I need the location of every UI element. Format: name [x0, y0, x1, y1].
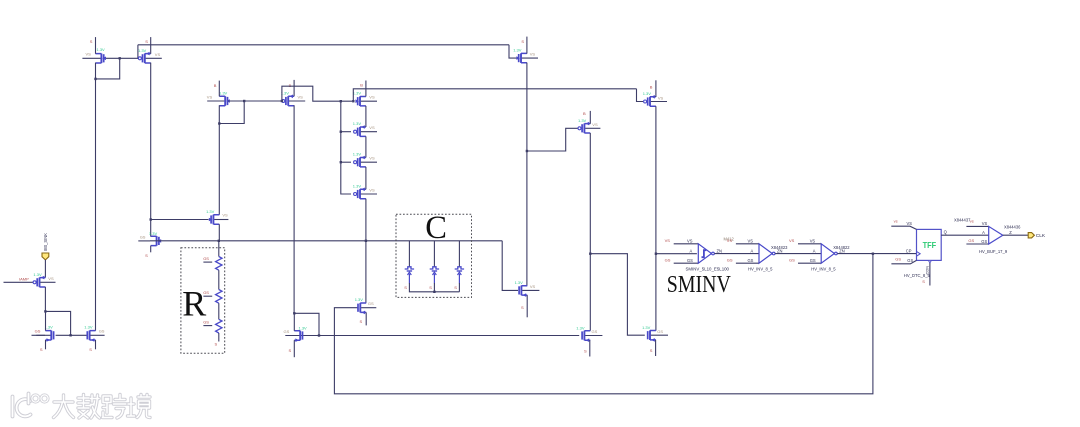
wire cap C2 bottom: [433, 283, 435, 292]
svg-text:GS: GS: [727, 258, 733, 263]
svg-text:S: S: [90, 39, 93, 44]
svg-text:S: S: [360, 319, 363, 324]
feedback wire: [334, 254, 873, 394]
wire INV3 GS stub: [798, 262, 821, 264]
svg-text:VS: VS: [530, 52, 536, 57]
wire S1 drain to S2 source: [365, 136, 367, 157]
svg-text:VS: VS: [298, 95, 304, 100]
transistor M9: [513, 48, 538, 63]
wire INV2 out: [775, 253, 821, 255]
capacitor C3: [455, 267, 464, 284]
pin IB0_SINK: [42, 253, 49, 260]
wire cap C2 top: [433, 241, 435, 267]
svg-text:S: S: [145, 39, 148, 44]
wire BUF out to CLK: [1003, 234, 1028, 236]
svg-text:GS: GS: [907, 258, 913, 263]
wire M9 drain long down to M11: [526, 63, 528, 286]
wire M13 bottom stub: [589, 340, 591, 356]
svg-text:HV_DTC_8_5: HV_DTC_8_5: [904, 273, 931, 278]
junction stack gate S1: [340, 131, 342, 133]
junction cap bus: [433, 291, 435, 293]
wire M_r source leg down from junction: [150, 220, 152, 237]
box R dashed: [181, 248, 225, 353]
wire M4 gate hop to M5 gate: [282, 86, 352, 101]
svg-text:VS: VS: [665, 238, 671, 243]
wire M_c diode loop: [294, 313, 319, 335]
svg-text:S: S: [145, 253, 148, 258]
junction node R top: [218, 240, 220, 242]
wire INV2 GS stub: [736, 262, 759, 264]
svg-text:ZN: ZN: [717, 249, 723, 254]
svg-text:A: A: [690, 248, 693, 253]
wire TFF Q to buffer: [941, 234, 989, 236]
svg-text:X844437: X844437: [954, 218, 971, 223]
wire osc node to INV1 input: [656, 253, 697, 255]
svg-text:GS: GS: [687, 258, 693, 263]
junction stack gate S2: [340, 161, 342, 163]
junction M8 drain: [44, 310, 46, 312]
svg-text:1.3V: 1.3V: [219, 90, 228, 95]
svg-text:TFF: TFF: [923, 240, 937, 250]
svg-text:vs: vs: [894, 219, 898, 224]
wire M6 source stub up: [589, 111, 591, 124]
svg-text:1.3V: 1.3V: [149, 231, 158, 236]
wire M6 drain long down to M13: [589, 133, 591, 331]
svg-text:IB0_SINK: IB0_SINK: [43, 233, 48, 251]
junction node RC: [365, 240, 367, 242]
transistor M14: [642, 325, 668, 342]
svg-text:GS: GS: [981, 239, 987, 244]
wire M1 drain long (to M_b drain): [95, 63, 97, 331]
svg-text:VS: VS: [86, 52, 92, 57]
svg-text:S: S: [521, 39, 524, 44]
TFF box: [917, 229, 942, 260]
wire INV1 out: [715, 253, 760, 255]
svg-text:GS: GS: [284, 329, 290, 334]
svg-text:GS: GS: [657, 329, 663, 334]
transistor S3: [353, 184, 377, 199]
svg-text:GS: GS: [203, 290, 209, 295]
wire M_a gate - M_b gate: [56, 334, 87, 336]
wire M4 source stub up: [293, 80, 295, 96]
svg-text:HV_INV_8_5: HV_INV_8_5: [748, 267, 773, 272]
svg-text:1.3V: 1.3V: [355, 297, 364, 302]
wire M_r bulk stub: [138, 240, 150, 242]
transistor M_a: [36, 325, 53, 342]
junction M9 drain / M6 gate tap: [526, 150, 528, 152]
wire M6 drain branch to M14 gate: [590, 254, 645, 336]
junction M6 drain branch: [589, 253, 591, 255]
svg-text:S: S: [922, 279, 925, 284]
svg-text:VS: VS: [727, 238, 733, 243]
wire M10 gate line: [151, 219, 209, 221]
transistor M12: [355, 297, 377, 314]
svg-text:S: S: [404, 285, 407, 290]
svg-text:SMINV: SMINV: [667, 272, 732, 298]
svg-text:S: S: [215, 342, 218, 347]
svg-text:GS: GS: [140, 235, 146, 240]
svg-text:A: A: [813, 248, 816, 253]
junction M_c loop: [318, 334, 320, 336]
wire M5 source stub up: [365, 81, 367, 97]
bottom gate bus: [285, 335, 579, 337]
transistor M13: [576, 325, 602, 342]
junction M_b gate: [69, 334, 71, 336]
svg-text:VS: VS: [369, 188, 375, 193]
wire cap C1 bottom L: [409, 283, 459, 292]
svg-text:S: S: [521, 305, 524, 310]
wire M_a drain up: [45, 311, 47, 330]
svg-text:1.3V: 1.3V: [353, 91, 362, 96]
wire M_c source stub down: [293, 340, 295, 357]
wire M1 diode loop gate-drain: [96, 58, 120, 79]
svg-text:A: A: [751, 248, 754, 253]
wire INV1 GS stub: [674, 262, 699, 264]
svg-text:GS: GS: [895, 256, 901, 261]
svg-text:1.3V: 1.3V: [353, 152, 362, 157]
inverter U1 SMINV: [698, 244, 714, 263]
wire M10 drain to net R: [218, 224, 220, 241]
svg-text:1.3V: 1.3V: [138, 48, 147, 53]
wire branch to M_b gate: [45, 311, 70, 335]
wire BUF VS stub: [966, 225, 988, 227]
wire M_c drain up leg: [293, 313, 295, 331]
transistor M_r: [140, 231, 162, 246]
wire INV3 VS stub: [798, 243, 821, 245]
transistor M7: [643, 91, 667, 106]
wire cap C3 bottom: [458, 283, 460, 292]
svg-text:A: A: [982, 230, 985, 235]
svg-text:1.3V: 1.3V: [84, 325, 93, 330]
svg-text:1.3V: 1.3V: [353, 184, 362, 189]
wire stack gate stub S1: [341, 131, 351, 133]
svg-text:S: S: [454, 285, 457, 290]
wire TFF VS stub: [891, 226, 916, 229]
svg-text:1.3V: 1.3V: [206, 209, 215, 214]
wire node RC down to M12 source: [365, 241, 367, 303]
svg-text:VS: VS: [369, 95, 375, 100]
svg-text:GS: GS: [592, 329, 598, 334]
transistor M2: [138, 48, 162, 63]
transistor M_c: [284, 326, 308, 343]
main horizontal net R-C: [150, 240, 502, 242]
svg-text:GS: GS: [203, 256, 209, 261]
svg-text:GS: GS: [665, 258, 671, 263]
svg-text:S: S: [650, 348, 653, 353]
wire M1 source stub up: [95, 37, 97, 54]
svg-text:B: B: [214, 83, 217, 88]
wire M11 bottom stub: [526, 295, 528, 317]
svg-text:VS: VS: [687, 239, 693, 244]
svg-text:X844822: X844822: [833, 245, 850, 250]
svg-text:GS: GS: [35, 329, 41, 334]
resistor R1: [216, 257, 222, 271]
wire M7 source stub up: [655, 80, 657, 97]
svg-text:B: B: [650, 84, 653, 89]
junction M_c drain: [293, 312, 295, 314]
svg-text:VS: VS: [155, 52, 161, 57]
transistor M11: [515, 280, 540, 297]
svg-text:GS: GS: [203, 320, 209, 325]
svg-text:VS: VS: [592, 122, 598, 127]
resistor R3: [216, 319, 222, 333]
svg-text:Q: Q: [944, 230, 947, 235]
wire R chain seg3: [218, 303, 220, 319]
svg-text:GS: GS: [99, 329, 105, 334]
transistor M_b: [84, 325, 105, 342]
wire node to M11 gate: [502, 241, 518, 291]
wire M7 gate drop: [637, 89, 644, 102]
svg-text:1.3V: 1.3V: [578, 118, 587, 123]
wire INV2 VS stub: [736, 243, 759, 245]
transistor M3: [207, 90, 230, 105]
svg-text:SMINV_5L10_E5L100: SMINV_5L10_E5L100: [686, 267, 730, 272]
svg-text:S: S: [289, 348, 292, 353]
wire TFF CDN stub down: [929, 263, 931, 286]
svg-text:CP: CP: [906, 249, 912, 254]
svg-text:1.3V: 1.3V: [643, 91, 652, 96]
wire pin to M8 source: [44, 260, 46, 278]
svg-text:X844823: X844823: [771, 245, 788, 250]
svg-text:VS: VS: [789, 238, 795, 243]
svg-text:VS: VS: [48, 276, 54, 281]
svg-text:CLK: CLK: [1036, 233, 1046, 239]
junction M1 gate: [119, 57, 121, 59]
svg-text:S: S: [584, 349, 587, 354]
wire INV1 VS stub: [674, 243, 699, 245]
buffer U4 HV_BUF: [989, 226, 1003, 244]
svg-text:vs: vs: [970, 218, 974, 223]
capacitor C2: [430, 267, 439, 284]
wire R chain bottom stub: [218, 333, 220, 342]
wire M8 drain down: [44, 287, 46, 312]
junction M2 drain node: [150, 218, 152, 220]
wire M_r drain stub down: [150, 246, 152, 253]
resistor R2: [216, 290, 222, 304]
svg-text:1.3V: 1.3V: [33, 272, 42, 277]
svg-text:VS: VS: [369, 125, 375, 130]
wire S3 drain to node RC: [365, 199, 367, 241]
svg-text:HV_INV_8_5: HV_INV_8_5: [811, 267, 836, 272]
svg-text:1.3V: 1.3V: [576, 325, 585, 330]
svg-text:1.3V: 1.3V: [353, 121, 362, 126]
wire M7 drain long down to M14: [655, 106, 657, 330]
wire M3 diode loop: [219, 101, 244, 124]
wire M9 gate drop: [509, 45, 517, 58]
wire M3 gate to M4 gate: [228, 100, 281, 102]
wire M9 source stub up: [526, 37, 528, 54]
svg-text:GS: GS: [368, 301, 374, 306]
wire TFF GS stub: [891, 260, 916, 263]
wire M4 drain down (to M_c): [293, 105, 295, 313]
box C dashed: [396, 214, 472, 297]
wire M_a bulk stub: [32, 334, 46, 336]
transistor M8: [33, 272, 55, 287]
transistor M4: [281, 90, 306, 105]
svg-text:VS: VS: [222, 213, 228, 218]
svg-text:S: S: [429, 285, 432, 290]
svg-text:GS: GS: [810, 258, 816, 263]
svg-text:HV_BUF_17_9: HV_BUF_17_9: [979, 249, 1008, 254]
svg-text:VS: VS: [748, 239, 754, 244]
transistor S1: [353, 121, 377, 136]
svg-text:1.3V: 1.3V: [515, 280, 524, 285]
TFF CP clock mark: [917, 251, 921, 256]
svg-text:1.3V: 1.3V: [513, 48, 522, 53]
svg-text:S: S: [40, 347, 43, 352]
svg-text:VS: VS: [369, 156, 375, 161]
svg-text:GS: GS: [789, 258, 795, 263]
wire M14 bottom stub: [655, 340, 657, 356]
svg-text:1.3V: 1.3V: [299, 326, 308, 331]
wire M3 source stub up: [218, 81, 220, 97]
inverter U3 HV_INV: [821, 244, 837, 263]
wire INV3 out to TFF CP: [837, 253, 916, 255]
TFF CDN pin mark: [928, 260, 931, 263]
svg-text:GS: GS: [968, 238, 974, 243]
transistor M5: [353, 91, 377, 106]
wire BUF GS stub: [966, 243, 988, 245]
svg-text:1.3V: 1.3V: [97, 47, 106, 52]
wire M2 source stub up: [150, 37, 152, 54]
svg-text:VS: VS: [982, 221, 988, 226]
wire M6 gate path: [527, 128, 578, 151]
transistor M10: [206, 209, 228, 224]
watermark logo: [13, 394, 49, 417]
svg-text:B: B: [583, 111, 586, 116]
junction feedback: [872, 253, 874, 255]
svg-text:VS: VS: [810, 239, 816, 244]
svg-text:1.3V: 1.3V: [642, 325, 651, 330]
wire M_a source stub down: [45, 340, 47, 349]
wire M1-M2 gate net: [105, 57, 139, 59]
wire M8 gate stub IAMP: [4, 281, 34, 283]
svg-text:C: C: [425, 210, 447, 246]
wire stack gate stub S2: [341, 161, 351, 163]
wire rail VDD-gate net top (T2 gate to T9 gate): [138, 44, 509, 46]
wire R1 tap stub: [203, 261, 212, 263]
transistor M1: [82, 47, 106, 63]
wire M5 drain to S1 source: [365, 106, 367, 127]
svg-text:S: S: [89, 347, 92, 352]
wire stack gate vertical: [341, 101, 351, 194]
junction M7 drain / osc node: [655, 253, 657, 255]
wire R3 tap stub: [203, 325, 212, 327]
junction stack gate top: [340, 100, 342, 102]
svg-text:VS: VS: [530, 284, 536, 289]
wire R2 tap stub: [203, 295, 212, 297]
wire M_b source stub down: [95, 340, 97, 349]
svg-text:GS: GS: [748, 258, 754, 263]
svg-text:IAMP: IAMP: [19, 277, 29, 282]
wire M3 drain down (to M10): [218, 105, 220, 215]
wire M2 drain long down: [150, 63, 152, 220]
wire M12 bottom stub: [365, 312, 367, 325]
wire S2 drain to S3 source: [365, 167, 367, 189]
junction M3 gate: [243, 100, 245, 102]
wire R chain seg1: [218, 241, 220, 257]
junction M5 gate: [352, 100, 354, 102]
junction M4 gate: [281, 100, 283, 102]
junction M1 drain: [94, 78, 96, 80]
wire cap C3 top: [458, 241, 460, 267]
svg-text:VS: VS: [658, 95, 664, 100]
watermark text da-shu-kua-jing: [54, 395, 151, 419]
junction M3 drain: [218, 122, 220, 124]
capacitor C1: [405, 267, 414, 284]
wire T2 gate drop: [138, 45, 140, 59]
svg-text:VS: VS: [207, 95, 213, 100]
pin CLK: [1028, 233, 1034, 238]
transistor M6: [578, 118, 600, 133]
svg-text:X844436: X844436: [1004, 225, 1021, 230]
svg-text:B: B: [360, 82, 363, 87]
inverter U2 HV_INV: [759, 244, 775, 263]
wire R chain seg2: [218, 270, 220, 289]
svg-text:VS: VS: [907, 221, 913, 226]
wire cap C1 top: [408, 241, 410, 267]
transistor S2: [353, 152, 377, 167]
wire rail M5 gate to M7 gate: [353, 89, 636, 101]
svg-text:B: B: [289, 83, 292, 88]
